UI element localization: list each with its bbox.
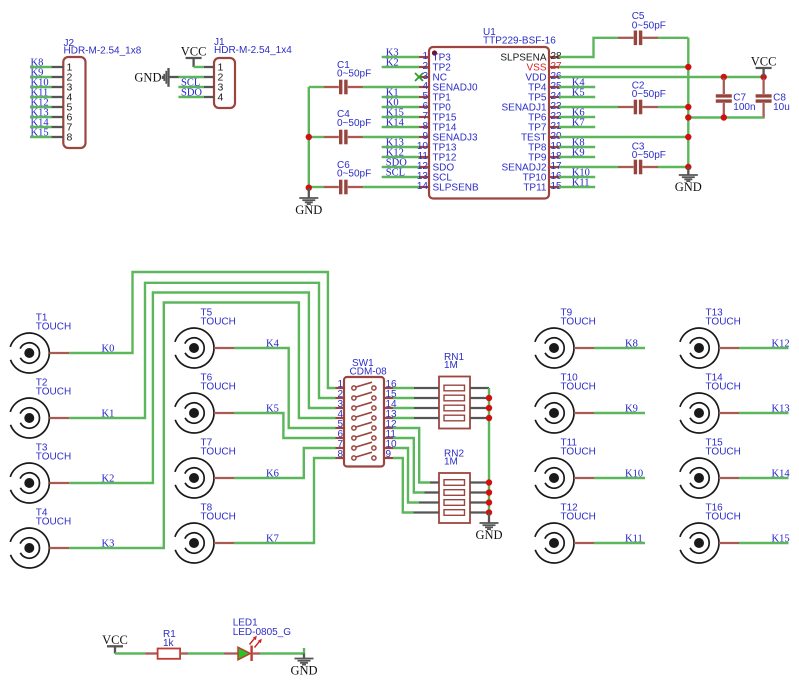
wire SDO to J1 pin 4 xyxy=(178,96,204,98)
connector J1 HDR-M-2.54_1x4 xyxy=(204,37,292,108)
junction RN bus y=502.5 xyxy=(486,499,492,505)
wire K3 to SW1 xyxy=(69,303,335,549)
svg-text:TOUCH: TOUCH xyxy=(201,317,236,328)
touch pad T14 xyxy=(680,373,741,433)
C3 leads xyxy=(618,166,634,168)
J2 pin 7 stub and number xyxy=(51,126,63,128)
svg-text:TOUCH: TOUCH xyxy=(706,382,741,393)
wire VSS bus (vertical) xyxy=(687,38,689,167)
wire U1 pin 27 VSS xyxy=(559,66,688,68)
svg-text:0~50pF: 0~50pF xyxy=(337,169,371,180)
U1 pin 4 stub, number and name SENADJ0 xyxy=(419,86,429,88)
LED1 anode lead xyxy=(224,652,238,654)
wire K2 to U1 xyxy=(382,66,419,68)
wire C5 to VSS bus xyxy=(658,37,688,39)
C7 plates xyxy=(716,94,732,97)
LED1 triangle xyxy=(238,647,250,660)
touch pad T9 xyxy=(535,308,596,368)
wire K7 stub xyxy=(559,126,595,128)
J1 pin 1 stub and number xyxy=(204,66,214,68)
svg-text:1k: 1k xyxy=(163,638,175,649)
touch pad T12 xyxy=(535,503,596,563)
touch pad T11 xyxy=(535,438,596,498)
SW1 body xyxy=(344,377,384,467)
ground GND (LED) xyxy=(290,654,317,678)
svg-text:8: 8 xyxy=(67,132,73,144)
RN2 resistor element 2 xyxy=(444,490,465,496)
J2 pin 1 stub and number xyxy=(51,66,63,68)
svg-text:VCC: VCC xyxy=(181,45,207,59)
J1 pin 4 stub and number xyxy=(204,96,214,98)
wire RN outputs ground bus xyxy=(488,388,490,513)
C3 plates xyxy=(634,160,637,175)
resistor network RN1 1M xyxy=(439,352,489,429)
ground stem xyxy=(488,513,490,523)
LED LED1 LED-0805_G xyxy=(224,618,291,662)
wire K13 to J2 pin 6 xyxy=(30,116,51,118)
svg-text:1M: 1M xyxy=(444,360,458,371)
SW1 switch 5 (pins 5/12) xyxy=(336,427,345,429)
power flag VCC (J1) xyxy=(181,45,207,68)
C6 leads xyxy=(323,186,339,188)
touch pad T10 xyxy=(535,373,596,433)
junction RN bus y=408 xyxy=(486,405,492,411)
wire SW1 pin 13 to RN1 xyxy=(393,417,414,419)
U1 pin 25 stub, number and name TP4 xyxy=(549,86,559,88)
wire K14 to U1 xyxy=(382,126,419,128)
capacitor C8 xyxy=(756,79,790,119)
U1 pin 17 stub, number and name SENADJ2 xyxy=(549,166,559,168)
svg-text:GND: GND xyxy=(295,203,322,217)
wire SW1 pin 11 to RN2 xyxy=(393,438,425,493)
junction RN bus y=482.5 xyxy=(486,479,492,485)
wire C2 to VSS bus xyxy=(658,106,688,108)
wire R1 to LED1 xyxy=(188,652,224,654)
C5 leads xyxy=(618,37,634,39)
C8 plates xyxy=(756,94,772,97)
wire K3 to U1 xyxy=(382,56,419,58)
wire ground bus to C4 xyxy=(309,136,324,138)
wire SW1 pin 9 to RN2 xyxy=(393,458,414,513)
svg-text:TOUCH: TOUCH xyxy=(201,512,236,523)
wire K9 stub xyxy=(559,156,595,158)
wire K4 stub xyxy=(559,86,595,88)
svg-text:TOUCH: TOUCH xyxy=(561,447,596,458)
wire K11 stub xyxy=(559,186,595,188)
wire GND to J1 pin 2 xyxy=(179,76,205,78)
svg-text:TOUCH: TOUCH xyxy=(561,382,596,393)
resistor network RN2 1M xyxy=(439,449,489,524)
SW1 switch 1 (pins 1/16) xyxy=(336,387,345,389)
wire LED1 to GND xyxy=(260,652,304,654)
RN2 body xyxy=(439,473,470,523)
ground GND (J1, sideways) xyxy=(134,68,178,87)
VCC bar and stem xyxy=(756,67,772,69)
svg-text:0~50pF: 0~50pF xyxy=(632,89,666,100)
wire K8 stub xyxy=(559,146,595,148)
svg-text:8: 8 xyxy=(337,449,343,460)
junction GND rail / C7 xyxy=(721,114,727,120)
wire U1 pin 17 to C3 xyxy=(559,166,618,168)
U1 pin 7 stub, number and name TP15 xyxy=(419,116,429,118)
svg-text:4: 4 xyxy=(218,92,224,104)
R1 leads xyxy=(145,652,158,654)
capacitor C3 xyxy=(618,142,666,175)
wire C6 to U1 pin 14 xyxy=(363,186,419,188)
J1 pin 3 stub and number xyxy=(204,86,214,88)
svg-text:0~50pF: 0~50pF xyxy=(337,118,371,129)
svg-text:TOUCH: TOUCH xyxy=(706,447,741,458)
svg-text:TOUCH: TOUCH xyxy=(36,387,71,398)
touch pad T6 xyxy=(175,373,236,433)
J2 pin 2 stub and number xyxy=(51,76,63,78)
ground stem xyxy=(687,167,689,175)
junction RN bus y=418 xyxy=(486,415,492,421)
junction RN bus y=398 xyxy=(486,395,492,401)
connector J2 HDR-M-2.54_1x8 xyxy=(51,38,141,148)
VCC bar and stem xyxy=(186,57,202,59)
svg-text:SLPSENB: SLPSENB xyxy=(433,183,479,194)
wire SDO to U1 xyxy=(382,166,419,168)
junction GND rail / VSS bus xyxy=(685,114,691,120)
wire VCC to J1 pin 1 xyxy=(194,66,204,68)
wire SCL to U1 xyxy=(382,176,419,178)
R1 body xyxy=(158,649,181,659)
wire K5 to SW1 xyxy=(234,413,336,438)
U1 pin 26 stub, number and name VDD xyxy=(549,76,559,78)
wire K0 to SW1 xyxy=(69,272,335,388)
wire SW1 pin 16 to RN1 xyxy=(393,387,414,389)
wire K14 xyxy=(739,477,789,479)
svg-text:TOUCH: TOUCH xyxy=(36,517,71,528)
touch pad T1 xyxy=(10,313,71,373)
wire left ground bus xyxy=(308,87,310,188)
junction VSS bus / C3 xyxy=(685,164,691,170)
svg-text:TOUCH: TOUCH xyxy=(706,317,741,328)
C4 plates xyxy=(339,130,342,145)
ground bars xyxy=(299,197,318,199)
U1 pin 27 stub, number and name VSS xyxy=(549,66,559,68)
wire K8 to J2 pin 1 xyxy=(30,66,51,68)
RN2 resistor element 4 xyxy=(444,510,465,516)
no-connect marker U1 pin 3 xyxy=(415,73,423,81)
touch pad T4 xyxy=(10,508,71,568)
wire K12 to J2 pin 5 xyxy=(30,106,51,108)
wire K7 to SW1 xyxy=(234,458,336,543)
wire K8 xyxy=(594,347,645,349)
wire GND rail (C7/C8 bottoms) xyxy=(688,116,763,118)
U1 pin 13 stub, number and name SCL xyxy=(419,176,429,178)
LED1 light arrows xyxy=(250,637,256,644)
wire U1 pin 20 TEST to VSS bus xyxy=(559,136,688,138)
J2 pin 6 stub and number xyxy=(51,116,63,118)
junction VSS bus / pin 27 xyxy=(685,64,691,70)
svg-text:HDR-M-2.54_1x4: HDR-M-2.54_1x4 xyxy=(214,45,292,56)
U1 body xyxy=(429,47,549,199)
capacitor C2 xyxy=(618,81,666,115)
J2 pin 8 stub and number xyxy=(51,136,63,138)
svg-text:TOUCH: TOUCH xyxy=(561,512,596,523)
svg-text:VCC: VCC xyxy=(102,633,128,647)
wire VDD rail (U1 pin 26 to VCC) xyxy=(559,76,764,78)
ground bars xyxy=(480,522,499,524)
U1 pin 8 stub, number and name TP14 xyxy=(419,126,429,128)
RN1 resistor element 3 xyxy=(444,405,465,411)
RN1 resistor element 4 xyxy=(444,415,465,421)
junction bus/C6 xyxy=(306,185,312,191)
wire SCL to J1 pin 3 xyxy=(178,86,204,88)
svg-text:TOUCH: TOUCH xyxy=(706,512,741,523)
wire K12 to U1 xyxy=(382,156,419,158)
U1 pin 16 stub, number and name TP10 xyxy=(549,176,559,178)
C7 leads xyxy=(723,79,725,95)
svg-text:TOUCH: TOUCH xyxy=(561,317,596,328)
ground bars xyxy=(679,174,698,176)
touch pad T15 xyxy=(680,438,741,498)
C2 plates xyxy=(634,100,637,115)
svg-text:10u: 10u xyxy=(773,102,790,113)
U1 pin 1 indicator dot xyxy=(432,50,437,55)
resistor R1 1k xyxy=(145,629,188,659)
touch pad T2 xyxy=(10,378,71,438)
wire C1 to U1 pin 4 xyxy=(363,86,419,88)
capacitor C1 xyxy=(323,60,371,94)
svg-text:GND: GND xyxy=(475,528,502,542)
C4 leads xyxy=(323,136,339,138)
U1 pin 15 stub, number and name TP11 xyxy=(549,186,559,188)
svg-text:GND: GND xyxy=(134,71,161,85)
C8 leads xyxy=(762,79,764,95)
wire K4 to SW1 xyxy=(234,348,336,428)
J1 body xyxy=(214,58,235,108)
wire K11 xyxy=(594,542,645,544)
RN1 body xyxy=(439,377,470,429)
capacitor C7 xyxy=(716,79,756,119)
wire C4 to U1 pin 9 xyxy=(363,136,419,138)
C1 plates xyxy=(339,80,342,95)
U1 pin 22 stub, number and name TP6 xyxy=(549,116,559,118)
wire K9 to J2 pin 2 xyxy=(30,76,51,78)
U1 pin 24 stub, number and name TP5 xyxy=(549,96,559,98)
wire K10 stub xyxy=(559,176,595,178)
U1 pin 6 stub, number and name TP0 xyxy=(419,106,429,108)
wire ground bus to C1 xyxy=(309,86,324,88)
J1 pin 2 stub and number xyxy=(204,76,214,78)
IC U1 TTP229-BSF-16 xyxy=(417,27,562,199)
wire SW1 pin 10 to RN2 xyxy=(393,448,419,503)
wire K13 to U1 xyxy=(382,146,419,148)
junction RN bus y=512.5 xyxy=(486,509,492,515)
C6 plates xyxy=(339,180,342,195)
junction VSS bus / TEST xyxy=(685,134,691,140)
U1 pin 11 stub, number and name TP12 xyxy=(419,156,429,158)
RN1 resistor element 2 xyxy=(444,395,465,401)
J2 pin 4 stub and number xyxy=(51,96,63,98)
LED1 cathode bar and lead xyxy=(250,646,252,662)
wire K1 to U1 xyxy=(382,96,419,98)
wire K13 xyxy=(739,412,789,414)
wire SW1 pin 14 to RN1 xyxy=(393,407,414,409)
junction RN bus y=492.5 xyxy=(486,489,492,495)
svg-text:100n: 100n xyxy=(733,102,755,113)
C5 plates xyxy=(634,31,637,46)
U1 pin 21 stub, number and name TP7 xyxy=(549,126,559,128)
wire ground bus to C6 xyxy=(309,186,324,188)
capacitor C5 xyxy=(618,11,666,45)
capacitor C6 xyxy=(323,160,371,194)
svg-text:0~50pF: 0~50pF xyxy=(632,20,666,31)
wire U1 pin 28 to C5 xyxy=(559,38,618,57)
wire K14 to J2 pin 7 xyxy=(30,126,51,128)
DIP switch SW1 CDM-08 xyxy=(336,358,398,467)
junction VDD/C8-VCC xyxy=(760,74,766,80)
wire K15 to J2 pin 8 xyxy=(30,136,51,138)
svg-text:0~50pF: 0~50pF xyxy=(632,150,666,161)
svg-text:CDM-08: CDM-08 xyxy=(350,366,388,377)
touch pad T16 xyxy=(680,503,741,563)
touch pad T5 xyxy=(175,308,236,368)
VCC bar and stem xyxy=(107,645,123,647)
U1 pin 20 stub, number and name TEST xyxy=(549,136,559,138)
RN1 resistor element 1 xyxy=(444,385,465,391)
wire K2 to SW1 xyxy=(69,293,335,484)
wire K12 xyxy=(739,347,789,349)
wire K0 to U1 xyxy=(382,106,419,108)
svg-text:TOUCH: TOUCH xyxy=(36,322,71,333)
wire K6 to SW1 xyxy=(234,448,336,478)
SW1 switch 3 (pins 3/14) xyxy=(336,407,345,409)
svg-text:1M: 1M xyxy=(444,457,458,468)
touch pad T7 xyxy=(175,438,236,498)
ground bars xyxy=(295,658,314,660)
SW1 switch 7 (pins 7/10) xyxy=(336,447,345,449)
ground GND (left bus) xyxy=(295,188,322,217)
C2 leads xyxy=(618,106,634,108)
junction bus/C4 xyxy=(306,134,312,140)
wire VCC to R1 xyxy=(115,652,145,654)
junction VDD/C7 xyxy=(721,74,727,80)
touch pad T13 xyxy=(680,308,741,368)
wire K10 xyxy=(594,477,645,479)
ground stem xyxy=(308,188,310,198)
wire C3 to VSS bus xyxy=(658,166,688,168)
SW1 switch 6 (pins 6/11) xyxy=(336,437,345,439)
U1 pin 12 stub, number and name SDO xyxy=(419,166,429,168)
svg-text:HDR-M-2.54_1x8: HDR-M-2.54_1x8 xyxy=(64,46,142,57)
svg-text:TOUCH: TOUCH xyxy=(36,452,71,463)
U1 pin 1 stub, number and name TP3 xyxy=(419,56,429,58)
wire SW1 pin 12 to RN2 xyxy=(393,428,430,483)
U1 pin 19 stub, number and name TP8 xyxy=(549,146,559,148)
wire GND stub up xyxy=(303,648,305,654)
wire K11 to J2 pin 4 xyxy=(30,96,51,98)
svg-text:GND: GND xyxy=(290,664,317,678)
wire K6 stub xyxy=(559,116,595,118)
wire U1 pin 23 to C2 xyxy=(559,106,618,108)
U1 pin 23 stub, number and name SENADJ1 xyxy=(549,106,559,108)
touch pad T8 xyxy=(175,503,236,563)
svg-text:TP11: TP11 xyxy=(523,183,547,194)
U1 pin 9 stub, number and name SENADJ3 xyxy=(419,136,429,138)
junction VSS bus / C2 xyxy=(685,104,691,110)
U1 pin 5 stub, number and name TP1 xyxy=(419,96,429,98)
wire K15 to U1 xyxy=(382,116,419,118)
C1 leads xyxy=(323,86,339,88)
svg-text:TOUCH: TOUCH xyxy=(201,447,236,458)
U1 pin 10 stub, number and name TP13 xyxy=(419,146,429,148)
wire K15 xyxy=(739,542,789,544)
U1 pin 3 stub, number and name NC xyxy=(419,76,429,78)
wire K5 stub xyxy=(559,96,595,98)
SW1 switch 2 (pins 2/15) xyxy=(336,397,345,399)
svg-text:LED-0805_G: LED-0805_G xyxy=(233,627,292,638)
U1 pin 18 stub, number and name TP9 xyxy=(549,156,559,158)
J2 pin 5 stub and number xyxy=(51,106,63,108)
svg-text:GND: GND xyxy=(675,180,702,194)
power flag VCC (rail) xyxy=(751,55,777,78)
wire K9 xyxy=(594,412,645,414)
ground GND (VSS bus) xyxy=(675,167,702,194)
power flag VCC (LED) xyxy=(102,633,128,654)
svg-text:9: 9 xyxy=(386,449,392,460)
capacitor C4 xyxy=(323,109,371,144)
U1 pin 28 stub, number and name SLPSENA xyxy=(549,56,559,58)
wire K10 to J2 pin 3 xyxy=(30,86,51,88)
J2 pin 3 stub and number xyxy=(51,86,63,88)
touch pad T3 xyxy=(10,443,71,503)
SW1 switch 8 (pins 8/9) xyxy=(336,457,345,459)
wire K1 to SW1 xyxy=(69,283,335,418)
svg-text:VCC: VCC xyxy=(751,55,777,69)
J2 body xyxy=(63,57,85,148)
wire SW1 pin 15 to RN1 xyxy=(393,397,414,399)
svg-text:TOUCH: TOUCH xyxy=(201,382,236,393)
RN2 resistor element 1 xyxy=(444,480,465,486)
RN2 resistor element 3 xyxy=(444,500,465,506)
svg-text:0~50pF: 0~50pF xyxy=(337,69,371,80)
ground stem xyxy=(303,654,305,659)
U1 pin 2 stub, number and name TP2 xyxy=(419,66,429,68)
ground GND (RN bus) xyxy=(475,513,502,542)
svg-text:TTP229-BSF-16: TTP229-BSF-16 xyxy=(483,36,556,47)
SW1 switch 4 (pins 4/13) xyxy=(336,417,345,419)
U1 pin 14 stub, number and name SLPSENB xyxy=(419,186,429,188)
